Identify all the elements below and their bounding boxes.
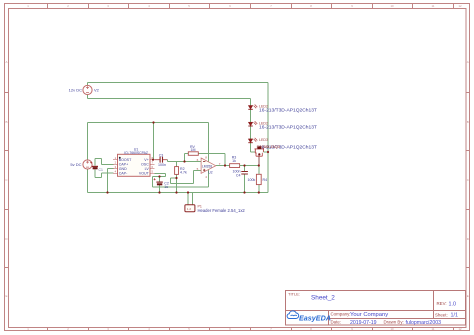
title block border bbox=[286, 291, 466, 326]
svg-text:C4: C4 bbox=[236, 173, 241, 177]
svg-text:VOUT: VOUT bbox=[139, 172, 150, 176]
svg-text:1.0: 1.0 bbox=[449, 301, 457, 307]
U1 left pin stubs bbox=[113, 160, 117, 174]
wire: V+ drop from top rail bbox=[153, 123, 155, 160]
svg-text:LM358: LM358 bbox=[202, 164, 212, 168]
resistor R3 1k bbox=[230, 164, 240, 168]
svg-text:B: B bbox=[467, 120, 469, 124]
svg-text:100k: 100k bbox=[248, 178, 256, 182]
svg-text:CAP+: CAP+ bbox=[119, 163, 129, 167]
wire: Q1 base vertical bbox=[258, 155, 260, 166]
resistor R4 100k bbox=[256, 166, 261, 193]
frame zone tick marks left bbox=[5, 93, 9, 268]
wire: C1 loop bottom CAP- bbox=[95, 170, 114, 178]
svg-text:5v DC: 5v DC bbox=[70, 162, 81, 167]
svg-text:10: 10 bbox=[390, 4, 394, 8]
LED2 bbox=[248, 121, 257, 126]
LED1 bbox=[248, 105, 257, 110]
svg-text:Drawn By:: Drawn By: bbox=[384, 320, 404, 325]
svg-text:U2: U2 bbox=[208, 171, 212, 175]
svg-text:1/1: 1/1 bbox=[451, 313, 459, 319]
capacitor C2 polarized bbox=[154, 177, 163, 193]
svg-text:C3: C3 bbox=[159, 153, 164, 157]
capacitor C4 bbox=[241, 166, 248, 193]
svg-text:1k: 1k bbox=[232, 159, 236, 163]
svg-text:11: 11 bbox=[432, 4, 435, 8]
frame zone tick marks right bbox=[466, 93, 470, 268]
frame zone tick marks top bbox=[48, 4, 454, 9]
wire: top rail bbox=[88, 123, 209, 162]
wire: bottom ground rail bbox=[88, 192, 269, 194]
svg-text:12: 12 bbox=[458, 327, 462, 331]
svg-text:B: B bbox=[5, 120, 7, 124]
wire: VOUT to C2 node bbox=[153, 174, 166, 177]
svg-text:100n: 100n bbox=[158, 163, 166, 167]
svg-text:CAP-: CAP- bbox=[119, 172, 128, 176]
U1 pin names left bbox=[119, 158, 132, 176]
voltage source V2 12v DC bbox=[83, 85, 92, 94]
wire: 12v top rail to LED column right vertical bbox=[88, 83, 269, 193]
svg-text:E: E bbox=[5, 294, 7, 298]
svg-text:16-213/T3D-AP1Q2Ch13T: 16-213/T3D-AP1Q2Ch13T bbox=[259, 108, 317, 114]
svg-text:1u: 1u bbox=[164, 185, 168, 189]
capacitor C3 bbox=[155, 157, 168, 163]
svg-text:4.7k: 4.7k bbox=[180, 171, 187, 175]
svg-text:1 2: 1 2 bbox=[187, 207, 191, 211]
U1 pin numbers left 1 2 3 4 bbox=[115, 156, 117, 174]
LED3 bbox=[248, 138, 257, 143]
junction dots bbox=[106, 121, 269, 193]
svg-text:11: 11 bbox=[432, 327, 435, 331]
svg-text:ICL7660SCPAZ: ICL7660SCPAZ bbox=[124, 151, 148, 155]
svg-text:LED3: LED3 bbox=[259, 138, 268, 142]
wire: 5v vertical through source to top rail bbox=[87, 123, 89, 193]
svg-text:12v DC: 12v DC bbox=[69, 88, 82, 93]
svg-text:1M: 1M bbox=[191, 148, 196, 152]
svg-text:2019-07-19: 2019-07-19 bbox=[350, 320, 377, 326]
header P1 bbox=[185, 193, 195, 212]
svg-text:C1: C1 bbox=[99, 168, 103, 172]
svg-text:fulopmarci2003: fulopmarci2003 bbox=[406, 320, 442, 326]
resistor RV 1M feedback bbox=[185, 152, 226, 166]
svg-text:Your Company: Your Company bbox=[350, 312, 388, 318]
U1 pin names right bbox=[139, 158, 150, 176]
frame zone tick marks bottom bbox=[48, 328, 454, 331]
U1 right pin stubs bbox=[150, 160, 154, 174]
svg-text:E: E bbox=[467, 294, 469, 298]
svg-text:Sheet:: Sheet: bbox=[435, 312, 448, 317]
svg-text:A: A bbox=[467, 60, 469, 64]
svg-text:R4: R4 bbox=[263, 178, 268, 182]
svg-text:Date:: Date: bbox=[331, 320, 342, 325]
wire: R2 bottom jog to pin5 bbox=[171, 171, 202, 184]
svg-text:TITLE:: TITLE: bbox=[288, 292, 300, 297]
frame zone numbers bottom bbox=[27, 327, 462, 331]
capacitor C1 polarized bbox=[90, 162, 98, 169]
svg-text:V+: V+ bbox=[144, 158, 149, 162]
wire: R3 to Q1 node bbox=[240, 165, 259, 167]
wire: GND pin to ground rail bbox=[108, 169, 114, 193]
svg-text:OSC: OSC bbox=[141, 163, 149, 167]
frame zone letters left bbox=[5, 60, 8, 298]
svg-text:Sheet_2: Sheet_2 bbox=[311, 294, 335, 301]
svg-text:12: 12 bbox=[458, 4, 462, 8]
svg-text:Header Female 2.54_1x2: Header Female 2.54_1x2 bbox=[198, 208, 246, 213]
svg-text:16-213/T3D-AP1Q2Ch13T: 16-213/T3D-AP1Q2Ch13T bbox=[259, 124, 317, 130]
frame zone letters right bbox=[467, 60, 470, 298]
svg-text:GND: GND bbox=[119, 167, 127, 171]
svg-text:A: A bbox=[5, 60, 7, 64]
svg-text:EasyEDA: EasyEDA bbox=[299, 314, 331, 323]
wire: V2 stubs bbox=[87, 83, 89, 99]
svg-text:REV:: REV: bbox=[437, 301, 447, 306]
wire: C1 loop top CAP+ bbox=[95, 159, 114, 166]
op-amp U2 LM358 bbox=[201, 158, 216, 173]
wire: pin6 input line bbox=[168, 161, 202, 163]
svg-text:BOOST: BOOST bbox=[119, 158, 132, 162]
op-amp pin number labels bbox=[197, 155, 221, 179]
svg-text:V2: V2 bbox=[94, 88, 100, 93]
U1 pin numbers right 8 7 6 5 bbox=[151, 156, 153, 174]
wire: Q1 right terminal to 12v vertical bbox=[263, 151, 268, 153]
wire: op-amp output bbox=[216, 165, 230, 167]
IC U1 ICL7660SCPAZ body bbox=[118, 154, 151, 176]
svg-text:Company:: Company: bbox=[331, 311, 351, 316]
resistor R2 4.7k bbox=[175, 162, 179, 179]
transistor Q1 bbox=[255, 146, 265, 156]
EasyEDA logo bbox=[287, 311, 331, 323]
svg-text:LV: LV bbox=[145, 167, 150, 171]
LED string vertical wires bbox=[251, 110, 256, 153]
wire: C3 right down to pin6 line bbox=[167, 160, 169, 162]
voltage source V1 5v DC bbox=[83, 160, 92, 169]
svg-text:10: 10 bbox=[390, 327, 394, 331]
wire: negative rail to op-amp pin4 bbox=[153, 170, 209, 188]
frame zone numbers top bbox=[27, 4, 462, 8]
wire: 12v bottom to LED string top bbox=[88, 99, 251, 106]
wire: R2 bottom to ground rail bbox=[176, 178, 178, 193]
